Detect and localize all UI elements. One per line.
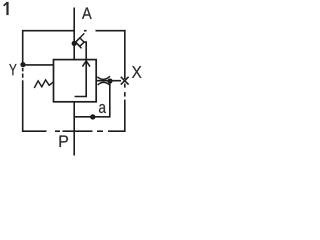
wire square right edge to port X (96, 80, 121, 82)
enclosure bottom edge dash-dot (108, 130, 125, 132)
label Y (9, 64, 16, 75)
wire Y node to square left edge (23, 64, 54, 66)
label 1 (6, 2, 8, 15)
pilot arrow inside square (shaft + L-foot) (75, 60, 87, 97)
label P (60, 135, 68, 147)
pilot wire from X node down and left to P line (74, 81, 110, 117)
port A line (73, 8, 75, 61)
check valve (diamond poppet with seat lines) (76, 33, 85, 48)
label A (82, 7, 92, 18)
enclosure right edge (long dash down to plugged port X) (124, 30, 126, 79)
label a (99, 104, 106, 113)
spring (zigzag) on square left (34, 80, 53, 88)
enclosure left edge (solid from top corner down to port Y node) (22, 30, 24, 63)
enclosure right edge dash-dot below X (124, 84, 126, 88)
enclosure top edge dash-dot (right of port A line) (84, 30, 87, 32)
node a (junction dot on bottom wire) (90, 114, 95, 119)
enclosure left edge dash-dot below Y node (22, 68, 24, 71)
wire from check valve down to square top (84, 42, 86, 60)
enclosure top edge (solid part, left of port A line) (23, 30, 74, 32)
node on A line (junction dot) (72, 41, 77, 46)
node on X wire (junction dot) (107, 78, 112, 83)
orifice (restrictor arcs) on X wire (97, 76, 110, 79)
port P line (73, 102, 75, 156)
label X (132, 66, 142, 78)
main valve square (54, 60, 97, 102)
plugged port X (cross) (121, 77, 129, 85)
node Y (junction dot on enclosure) (20, 62, 25, 67)
arrowhead pointing up (82, 61, 90, 67)
